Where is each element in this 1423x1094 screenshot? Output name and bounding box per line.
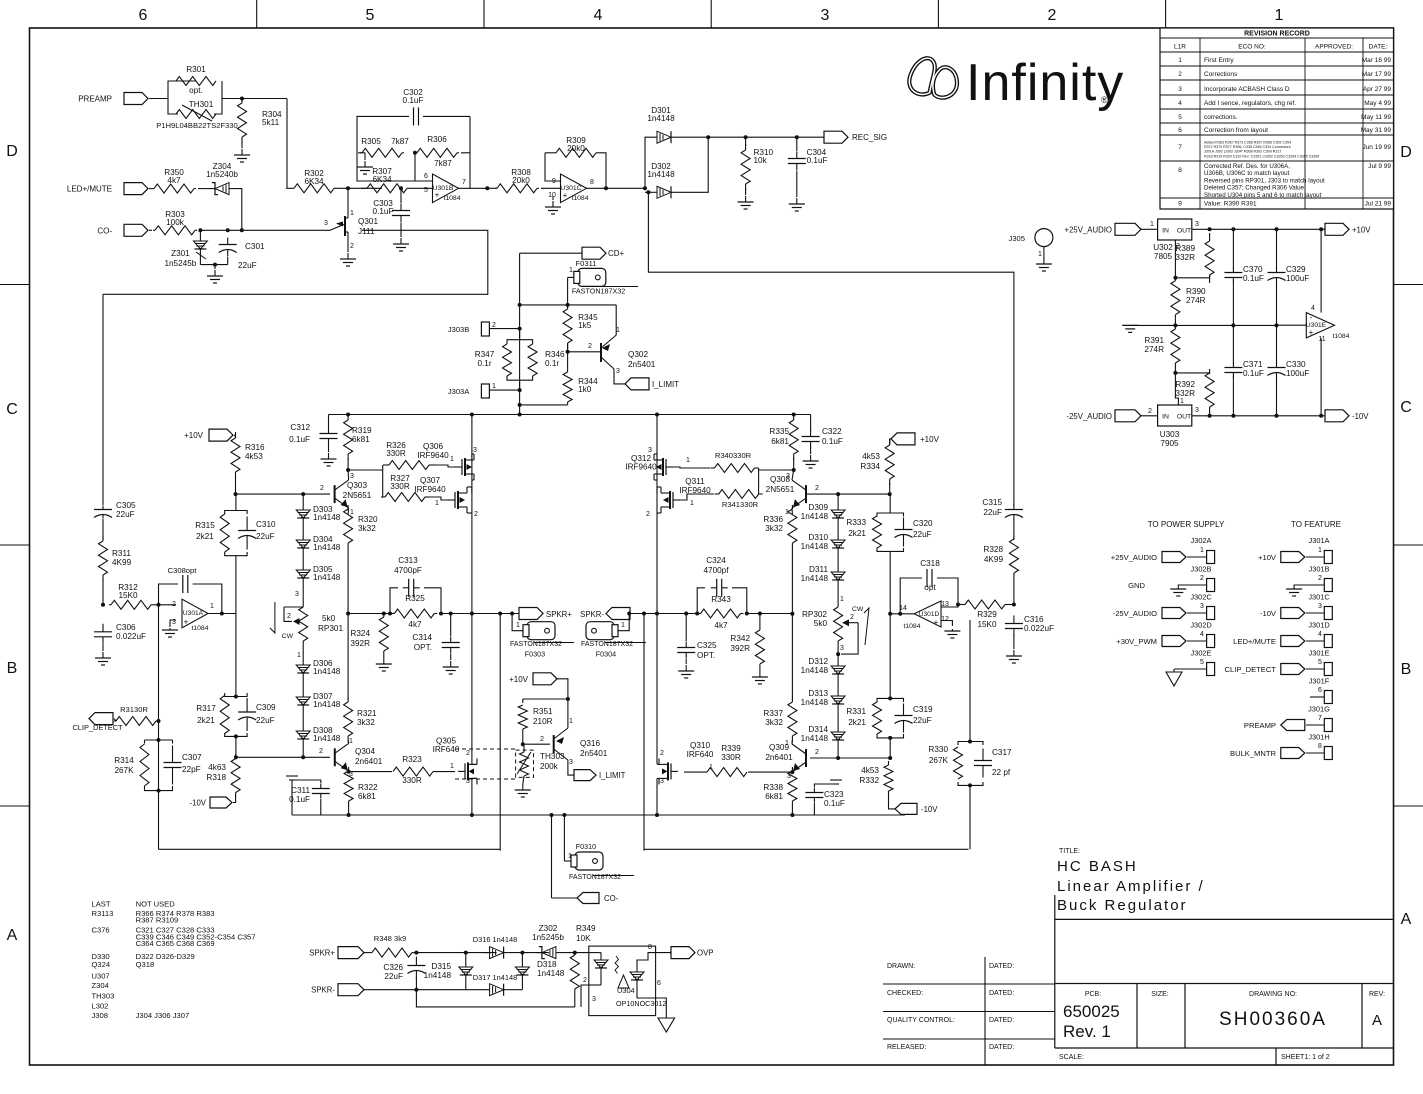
- svg-text:GND: GND: [1128, 581, 1145, 590]
- capacitor C330: [1268, 363, 1286, 378]
- svg-text:J308: J308: [92, 1011, 108, 1020]
- svg-text:332R: 332R: [1175, 253, 1195, 262]
- junction C316 node: [1012, 603, 1016, 607]
- junction RP302 bottom: [836, 652, 840, 656]
- wire: [1178, 585, 1206, 589]
- wire bus right: [747, 613, 794, 615]
- svg-text:A: A: [1372, 1012, 1382, 1029]
- svg-text:7: 7: [1318, 715, 1322, 722]
- junction: [795, 135, 799, 139]
- svg-text:C318: C318: [920, 559, 940, 568]
- wire Z304 to CO- net: [234, 189, 242, 231]
- op-amp U301B: [433, 174, 459, 203]
- svg-text:t1084: t1084: [571, 195, 588, 202]
- J303A pin: [481, 384, 489, 398]
- wire drain bus top: [471, 415, 473, 461]
- connector SPKR- in: [338, 984, 364, 996]
- wire C311 top: [292, 780, 321, 783]
- RP302 CW arrow: [864, 608, 869, 645]
- connector -25V_AUDIO in: [1115, 410, 1141, 422]
- wire: [837, 583, 839, 607]
- junction Q304 emitter: [347, 770, 351, 774]
- capacitor C324: [711, 579, 728, 597]
- connector +10V mid: [533, 673, 557, 685]
- svg-text:D: D: [6, 143, 18, 160]
- connector +25V_AUDIO in: [1115, 223, 1141, 235]
- wire lower return line left: [159, 848, 501, 850]
- svg-text:2: 2: [815, 749, 819, 756]
- J302 header pin 1: [1207, 551, 1215, 564]
- wire C314 drop: [450, 614, 452, 637]
- J301 header pin 1: [1324, 551, 1332, 564]
- svg-text:LED+/MUTE: LED+/MUTE: [67, 185, 112, 194]
- svg-text:22uF: 22uF: [116, 510, 135, 519]
- junction: [464, 951, 468, 955]
- svg-text:332R: 332R: [1175, 389, 1195, 398]
- wire: [400, 188, 402, 203]
- wire gate feed vertical right: [758, 468, 760, 494]
- wire Q302 base: [568, 351, 601, 353]
- diode D301: [652, 131, 676, 143]
- svg-text:R330: R330: [928, 745, 948, 754]
- svg-text:1: 1: [492, 383, 496, 390]
- svg-text:0.1uF: 0.1uF: [1243, 274, 1264, 283]
- resistor R347: [503, 342, 512, 378]
- svg-text:R317: R317: [196, 704, 216, 713]
- thermistor TH303 dashed box: [516, 750, 534, 777]
- svg-text:t1084: t1084: [903, 623, 920, 630]
- svg-text:Reversed pins RP301, J303 to m: Reversed pins RP301, J303 to match layou…: [1204, 177, 1325, 184]
- svg-text:R389: R389: [1175, 244, 1195, 253]
- svg-text:J303A: J303A: [448, 387, 470, 396]
- junction: [226, 228, 230, 232]
- resistor R351: [518, 705, 527, 729]
- capacitor C319: [895, 704, 913, 733]
- svg-text:6K34: 6K34: [372, 175, 392, 184]
- wire: [541, 187, 560, 189]
- diode D307: [296, 694, 310, 708]
- connector J305: [1035, 229, 1053, 247]
- svg-text:CW: CW: [282, 633, 294, 640]
- svg-text:0.1uF: 0.1uF: [807, 156, 828, 165]
- wire: [636, 964, 638, 969]
- svg-text:U301D: U301D: [919, 611, 940, 618]
- svg-text:9: 9: [1178, 201, 1182, 208]
- svg-text:267K: 267K: [929, 756, 949, 765]
- resistor R389: [1205, 233, 1214, 283]
- svg-text:Jul 9 99: Jul 9 99: [1368, 163, 1391, 170]
- J301 header pin 7: [1324, 719, 1332, 732]
- svg-text:CLIP_DETECT: CLIP_DETECT: [72, 723, 123, 732]
- svg-text:3k32: 3k32: [765, 718, 783, 727]
- capacitor C309: [238, 698, 256, 731]
- svg-text:12: 12: [941, 616, 949, 623]
- resistor R324: [379, 613, 388, 655]
- wire: [149, 98, 168, 100]
- connector REC_SIG: [824, 131, 848, 143]
- svg-text:R332: R332: [859, 776, 879, 785]
- wire: [793, 458, 795, 470]
- resistor R301: [176, 77, 216, 86]
- svg-text:20k0: 20k0: [512, 176, 530, 185]
- svg-text:D316 1n4148: D316 1n4148: [473, 935, 517, 944]
- Q301 drain stub: [345, 217, 348, 219]
- wire: [1209, 411, 1211, 416]
- svg-text:2: 2: [540, 736, 544, 743]
- junction: [888, 696, 892, 700]
- resistor R391: [1171, 325, 1180, 367]
- svg-text:OPT.: OPT.: [697, 651, 715, 660]
- svg-text:DRAWING NO:: DRAWING NO:: [1249, 991, 1297, 998]
- svg-text:15K0: 15K0: [118, 591, 138, 600]
- resistor R344: [563, 372, 572, 402]
- svg-text:0.1r: 0.1r: [545, 359, 559, 368]
- svg-text:4k53: 4k53: [245, 452, 263, 461]
- svg-text:R3130R: R3130R: [120, 705, 148, 714]
- wire: [400, 223, 402, 237]
- regulator U303 7905: [1158, 405, 1192, 426]
- wire: [1276, 229, 1278, 269]
- resistor R320: [344, 505, 353, 547]
- svg-text:+: +: [563, 191, 568, 200]
- svg-text:22uF: 22uF: [256, 532, 275, 541]
- wire pin12 stub: [941, 621, 952, 627]
- wire: [1174, 668, 1206, 670]
- svg-text:+: +: [184, 618, 189, 627]
- J302 header pin 3: [1207, 607, 1215, 620]
- svg-text:1n4148: 1n4148: [313, 573, 341, 582]
- svg-text:8: 8: [1318, 743, 1322, 750]
- svg-text:R331: R331: [846, 707, 866, 716]
- wire left input vertical: [102, 294, 104, 505]
- wire: [358, 152, 365, 154]
- svg-text:Q301: Q301: [358, 217, 378, 226]
- svg-text:R301: R301: [186, 65, 206, 74]
- svg-text:274R: 274R: [1186, 296, 1206, 305]
- svg-text:R390: R390: [1186, 287, 1206, 296]
- diode D308: [296, 728, 310, 742]
- resistor R332: [884, 761, 893, 795]
- svg-text:1: 1: [1200, 547, 1204, 554]
- svg-text:Shorted U304 pins 5 and 6 to m: Shorted U304 pins 5 and 6 to match layou…: [1204, 192, 1322, 199]
- svg-text:Corrected Ref. Des. for U306A,: Corrected Ref. Des. for U306A,: [1204, 163, 1290, 170]
- wire: [837, 677, 839, 693]
- svg-text:Added R363 R367 R373 C358 R357: Added R363 R367 R373 C358 R357 R358 C353…: [1204, 141, 1291, 145]
- wire: [153, 604, 159, 606]
- wire: [199, 230, 201, 238]
- svg-text:6k81: 6k81: [765, 792, 783, 801]
- wire: [552, 897, 578, 899]
- svg-text:C312: C312: [290, 423, 310, 432]
- svg-text:R387 R3109: R387 R3109: [136, 916, 179, 925]
- svg-text:1: 1: [350, 210, 354, 217]
- wire: [302, 708, 304, 728]
- capacitor C308: [183, 575, 188, 593]
- C324 R343 parallel: [697, 588, 705, 614]
- wire: [348, 805, 350, 815]
- svg-text:1: 1: [210, 603, 214, 610]
- wire C325 drop: [685, 614, 687, 642]
- connector CD+: [582, 247, 606, 259]
- svg-text:3: 3: [569, 759, 573, 766]
- svg-text:5: 5: [1318, 659, 1322, 666]
- ground below Z301: [207, 270, 223, 283]
- svg-text:0.1uF: 0.1uF: [289, 435, 310, 444]
- capacitor C303: [392, 204, 410, 223]
- wire emitter to R323: [349, 771, 392, 773]
- wire: [654, 479, 657, 481]
- wire: [568, 276, 574, 278]
- svg-text:C371: C371: [1243, 360, 1263, 369]
- svg-text:Value: R390 R391: Value: R390 R391: [1204, 201, 1257, 208]
- svg-text:1: 1: [297, 652, 301, 659]
- zener Z302: [537, 947, 561, 959]
- diode D317: [485, 984, 509, 996]
- ground below C325: [678, 665, 694, 678]
- wire: [657, 777, 659, 779]
- wire: [423, 115, 470, 117]
- junction: [518, 403, 522, 407]
- wire U301C out: [587, 187, 646, 189]
- C323 reference mark: [830, 779, 842, 781]
- wire C302 to pin6: [357, 116, 432, 181]
- svg-text:2: 2: [850, 614, 854, 621]
- wire: [416, 952, 496, 954]
- svg-text:1n4148: 1n4148: [537, 969, 565, 978]
- svg-text:1n5245b: 1n5245b: [532, 933, 564, 942]
- svg-text:2: 2: [1200, 575, 1204, 582]
- capacitor C315: [1005, 504, 1023, 521]
- wire: [791, 771, 793, 773]
- svg-text:CO-: CO-: [97, 226, 112, 235]
- wire: [1011, 604, 1014, 606]
- diode D318 body: [515, 964, 529, 978]
- zone tick left: [0, 544, 30, 546]
- J302 header pin 4: [1207, 635, 1215, 648]
- wire to Q311 gate: [680, 494, 714, 500]
- svg-text:15K0: 15K0: [977, 620, 997, 629]
- svg-text:R337: R337: [763, 709, 783, 718]
- svg-text:1n4148: 1n4148: [801, 734, 829, 743]
- svg-text:0.1r: 0.1r: [477, 359, 491, 368]
- svg-text:330R: 330R: [402, 776, 422, 785]
- wire R342 drop: [759, 614, 761, 627]
- ground below C314: [443, 661, 459, 674]
- svg-text:C306: C306: [116, 623, 136, 632]
- junction: [670, 951, 674, 955]
- transistor Q301 J111: [336, 216, 345, 236]
- svg-text:t1084: t1084: [1332, 333, 1349, 340]
- svg-text:2: 2: [1048, 7, 1057, 24]
- wire: [415, 977, 417, 990]
- wire: [656, 454, 658, 493]
- resistor R302: [286, 184, 342, 193]
- U304 zigzag: [615, 956, 619, 974]
- svg-text:6: 6: [139, 7, 148, 24]
- svg-text:C: C: [6, 401, 18, 418]
- diode D305: [296, 567, 310, 581]
- junction: [1208, 414, 1212, 418]
- wire: [561, 952, 589, 954]
- svg-text:C301: C301: [245, 242, 265, 251]
- svg-text:2k21: 2k21: [848, 529, 866, 538]
- svg-text:LED+/MUTE: LED+/MUTE: [1233, 637, 1276, 646]
- wire: [302, 641, 304, 662]
- svg-text:1: 1: [709, 764, 713, 771]
- svg-text:+10V: +10V: [509, 675, 529, 684]
- svg-text:6k81: 6k81: [358, 792, 376, 801]
- wire R309 left: [545, 153, 560, 181]
- svg-text:1: 1: [686, 457, 690, 464]
- svg-text:R3113: R3113: [92, 909, 114, 918]
- connector BULK_MNTR J301: [1281, 748, 1305, 759]
- connector +10V out: [1325, 223, 1349, 235]
- junction output node: [470, 612, 474, 616]
- connector +10V right: [891, 433, 915, 445]
- svg-text:OUT: OUT: [1177, 414, 1191, 421]
- connector -10V left: [210, 797, 232, 808]
- wire CD+ line: [520, 252, 583, 254]
- junction: [968, 740, 972, 744]
- svg-text:Q306: Q306: [423, 442, 443, 451]
- wire pin2 stub: [159, 604, 177, 606]
- svg-text:4k63: 4k63: [208, 763, 226, 772]
- wire C311 loop: [291, 780, 293, 815]
- wire left service vertical: [158, 605, 160, 850]
- J301 header pin 8: [1324, 747, 1332, 760]
- svg-text:7k87: 7k87: [434, 159, 452, 168]
- wire VAS chain right: [791, 547, 793, 700]
- wire lower base line: [236, 756, 330, 758]
- ground J301 pin2: [1286, 589, 1302, 596]
- resistor R345: [563, 303, 572, 349]
- wire to Q305 gate: [433, 771, 455, 773]
- wire: [523, 744, 524, 752]
- svg-text:CHECKED:: CHECKED:: [887, 990, 923, 997]
- zone tick right: [1394, 544, 1423, 546]
- svg-text:R334: R334: [860, 462, 880, 471]
- resistor R339: [707, 768, 747, 777]
- svg-text:Q307: Q307: [420, 476, 440, 485]
- svg-text:Z302: Z302: [539, 924, 558, 933]
- wire: [1294, 585, 1324, 589]
- junction sense tap right: [642, 612, 646, 616]
- resistor R316: [231, 432, 240, 478]
- svg-text:RELEASED:: RELEASED:: [887, 1044, 926, 1051]
- junction: [695, 612, 699, 616]
- junction: [414, 988, 418, 992]
- svg-text:CW: CW: [852, 606, 864, 613]
- junction R316 base line: [234, 492, 238, 496]
- wire Q302 emitter: [614, 369, 625, 384]
- svg-text:6K34: 6K34: [304, 177, 324, 186]
- svg-text:R338: R338: [763, 783, 783, 792]
- svg-text:Mar 17 99: Mar 17 99: [1362, 71, 1392, 78]
- connector +10V left: [209, 429, 233, 441]
- diode D315 body: [459, 964, 473, 978]
- ground R305: [357, 161, 373, 174]
- svg-text:SH00360A: SH00360A: [1219, 1009, 1327, 1030]
- svg-text:D318: D318: [537, 960, 557, 969]
- junction: [1319, 227, 1323, 231]
- svg-text:1n4148: 1n4148: [313, 734, 341, 743]
- svg-text:2k21: 2k21: [848, 718, 866, 727]
- svg-text:R336: R336: [763, 515, 783, 524]
- wire: [1174, 367, 1176, 373]
- wire main rail: [329, 414, 811, 416]
- junction pin13 node: [956, 603, 960, 607]
- R331 C319 parallel box: [877, 698, 904, 702]
- svg-text:8: 8: [1178, 167, 1182, 174]
- wire R309 right: [600, 153, 606, 189]
- wire: [521, 953, 523, 964]
- svg-text:R392: R392: [1175, 380, 1195, 389]
- resistor R313: [114, 717, 158, 726]
- svg-text:4: 4: [1178, 100, 1182, 107]
- resistor R346: [528, 342, 537, 378]
- svg-text:0.1uF: 0.1uF: [822, 437, 843, 446]
- wire: [465, 953, 467, 964]
- svg-text:2: 2: [1318, 575, 1322, 582]
- svg-text:opt.: opt.: [189, 86, 203, 95]
- svg-text:C319: C319: [913, 705, 933, 714]
- svg-text:B: B: [7, 660, 18, 677]
- svg-text:+10V: +10V: [1352, 225, 1371, 234]
- svg-text:267K: 267K: [114, 766, 134, 775]
- capacitor C325: [677, 642, 695, 659]
- wire: [102, 579, 104, 605]
- resistor R310: [741, 144, 750, 190]
- J302 header pin 2: [1207, 579, 1215, 592]
- resistor R309: [552, 148, 600, 157]
- svg-text:7805: 7805: [1154, 252, 1173, 261]
- pcb box: [1136, 984, 1138, 1049]
- connector I_LIMIT left: [625, 378, 649, 390]
- C313 R325 parallel: [390, 588, 398, 614]
- connector CO- out: [577, 893, 599, 904]
- svg-text:R306: R306: [427, 135, 447, 144]
- svg-text:R372 R370 R377 R356, C338 C345: R372 R370 R377 R356, C338 C345 C334 Conn…: [1204, 145, 1291, 149]
- ground below C312: [321, 453, 337, 466]
- svg-text:1n5245b: 1n5245b: [164, 259, 196, 268]
- wire: [302, 551, 304, 567]
- wire -10V out line: [1192, 415, 1331, 417]
- wire U304 to ground: [656, 998, 667, 1018]
- svg-text:2n5401: 2n5401: [628, 360, 656, 369]
- svg-text:2: 2: [474, 511, 478, 518]
- svg-text:DATED:: DATED:: [989, 990, 1014, 997]
- wire: [1013, 577, 1015, 605]
- resistor R341: [715, 490, 763, 499]
- wire R351 top: [523, 698, 568, 700]
- junction R319 rail: [346, 413, 350, 417]
- capacitor C306: [94, 624, 112, 645]
- svg-text:SPKR+: SPKR+: [546, 610, 572, 619]
- svg-text:2: 2: [350, 243, 354, 250]
- connector CO- input: [124, 224, 148, 236]
- wire: [347, 740, 350, 743]
- junction: [520, 951, 524, 955]
- svg-text:2: 2: [660, 750, 664, 757]
- wire: [348, 770, 350, 772]
- junction: [1275, 227, 1279, 231]
- junction U301A out: [220, 612, 224, 616]
- wire: [890, 439, 891, 445]
- svg-text:R321: R321: [357, 709, 377, 718]
- svg-text:F0303: F0303: [525, 650, 545, 659]
- svg-text:J301D: J301D: [1308, 621, 1329, 630]
- wire: [523, 776, 524, 784]
